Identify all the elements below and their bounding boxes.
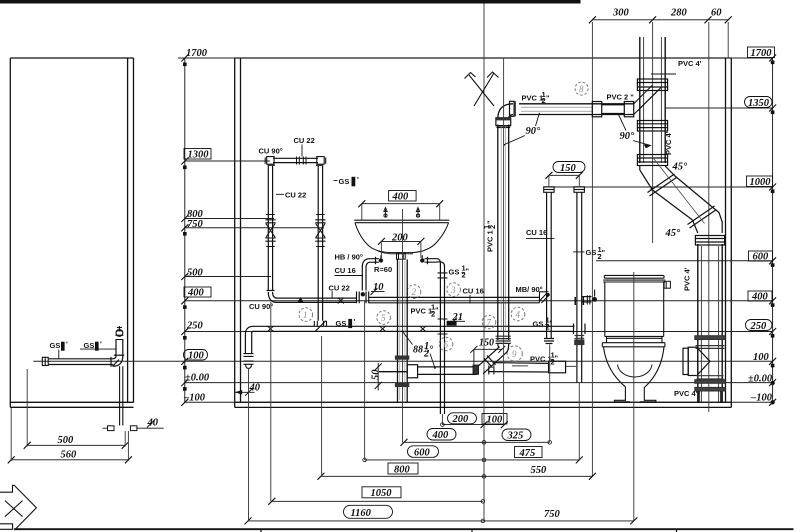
waste drop coupling below tee xyxy=(395,383,409,387)
CU16 riser right cap xyxy=(574,187,584,193)
level line 800 xyxy=(185,218,274,220)
svg-text:2: 2 xyxy=(412,287,417,297)
svg-text:±0.00: ±0.00 xyxy=(185,373,210,384)
washbasin drain box xyxy=(397,253,406,259)
150 dim between risers xyxy=(553,162,585,173)
washbasin dim 400 xyxy=(389,191,417,202)
elbow socket vertical band xyxy=(510,101,516,116)
level line 400 xyxy=(185,300,773,302)
supply pipe 400 level left segment xyxy=(277,298,357,302)
svg-text:CU 90°: CU 90° xyxy=(259,147,283,156)
toilet cistern body xyxy=(605,282,664,343)
svg-text:300: 300 xyxy=(612,8,630,19)
svg-text:±0.00: ±0.00 xyxy=(748,374,773,385)
svg-text:PVC 4': PVC 4' xyxy=(664,131,673,155)
svg-text:GS: GS xyxy=(336,319,347,328)
left wall pipe elbow xyxy=(111,355,124,367)
title block divider stubs xyxy=(261,529,677,532)
svg-text:R=60: R=60 xyxy=(374,265,392,274)
level line 1350 right xyxy=(666,107,773,109)
callout circle 1 xyxy=(299,308,313,322)
CU16 riser left cap xyxy=(544,187,554,193)
bottom extension verticals xyxy=(248,369,250,521)
svg-text:200: 200 xyxy=(452,414,470,425)
basin waste drop pipe xyxy=(398,259,408,402)
svg-text:600: 600 xyxy=(753,252,770,263)
svg-text:': ' xyxy=(100,340,102,349)
wye into stack xyxy=(634,86,661,115)
toilet bowl profile xyxy=(604,347,665,402)
svg-text:": " xyxy=(435,306,439,315)
right supply pipe to GS drop xyxy=(425,257,445,266)
svg-text:GS: GS xyxy=(586,248,597,257)
left wall horizontal pipe xyxy=(48,359,113,365)
svg-text:150: 150 xyxy=(479,338,494,349)
svg-text:400: 400 xyxy=(187,288,205,299)
MB 90 elbow into CU16 riser xyxy=(540,292,550,303)
svg-text:1000: 1000 xyxy=(750,177,772,188)
left wall vertical pipe xyxy=(116,340,123,357)
long center extension line xyxy=(483,4,485,521)
svg-text:": " xyxy=(486,220,495,224)
tee where 250 pipe ends xyxy=(574,324,586,335)
stack coupling ring 2 xyxy=(637,121,667,132)
supply dots under basin xyxy=(379,258,383,262)
svg-text:750: 750 xyxy=(187,219,204,230)
svg-text:1: 1 xyxy=(303,310,308,320)
sheet top bar xyxy=(0,0,581,4)
level line 600 right xyxy=(596,260,773,262)
svg-text:MB/ 90°: MB/ 90° xyxy=(516,285,543,294)
svg-text:1700: 1700 xyxy=(751,48,773,59)
bottom dim row 1050 xyxy=(362,487,401,498)
left wall pipe top fitting xyxy=(115,326,123,340)
valve on right riser at 750 xyxy=(315,215,325,247)
GS distribution pipe 250 level xyxy=(253,326,575,331)
level line 250 xyxy=(185,331,773,333)
CU22 socket pair on top run xyxy=(297,157,307,165)
basin centerline extension xyxy=(402,209,404,443)
PVC 2 branch horizontal pipe xyxy=(519,104,634,115)
union on GS drop xyxy=(438,273,448,278)
svg-text:60: 60 xyxy=(711,8,722,19)
svg-text:600: 600 xyxy=(414,447,431,458)
svg-text:250: 250 xyxy=(186,321,204,332)
bottom dim row 200/100 xyxy=(448,413,477,424)
toilet seat xyxy=(602,343,665,347)
90 elbow at left of PVC1.5 branch xyxy=(498,104,513,119)
svg-text:PVC 1: PVC 1 xyxy=(486,230,495,252)
svg-text:HB / 90°: HB / 90° xyxy=(335,253,363,262)
lower stack coupling ring xyxy=(695,236,724,246)
level line -100 xyxy=(185,401,773,403)
svg-text:–100: –100 xyxy=(183,393,206,404)
svg-text:475: 475 xyxy=(519,448,536,459)
trap outlet stub xyxy=(489,366,494,375)
level line 750 xyxy=(185,227,324,229)
svg-text:1050: 1050 xyxy=(371,488,393,499)
callout circle 6 xyxy=(439,337,453,351)
left wall xyxy=(10,58,133,407)
svg-text:5: 5 xyxy=(381,313,386,323)
svg-text:7: 7 xyxy=(487,318,492,328)
R=60 bend pipe to left supply xyxy=(362,257,379,291)
level line 1000 right xyxy=(544,186,773,188)
svg-text:1300: 1300 xyxy=(188,150,210,161)
level line 100 xyxy=(33,360,772,362)
svg-text:500: 500 xyxy=(58,435,75,446)
tee CU22 right riser into 250 pipe xyxy=(314,321,326,332)
svg-text:9: 9 xyxy=(512,349,517,359)
svg-text:CU 16: CU 16 xyxy=(335,266,356,275)
top dim chain 300/280/60 xyxy=(592,19,728,21)
svg-text:800: 800 xyxy=(394,464,411,475)
svg-text:': ' xyxy=(354,317,356,326)
svg-text:GS: GS xyxy=(339,177,350,186)
CU22 elbow bottom-left to horizontal xyxy=(267,291,278,303)
X unions on 250 pipe xyxy=(267,326,426,332)
waste pipe to WC xyxy=(488,363,549,372)
svg-text:CU 90°: CU 90° xyxy=(249,302,273,311)
right level labels xyxy=(745,47,775,403)
trap 45 assembly at circle 9 xyxy=(477,347,506,374)
flow direction arrow bottom-left xyxy=(0,485,36,529)
svg-text:750: 750 xyxy=(544,509,561,520)
svg-text:PVC 1: PVC 1 xyxy=(411,307,433,316)
sheet bottom line xyxy=(14,528,794,530)
svg-text:560: 560 xyxy=(61,450,78,461)
svg-text:': ' xyxy=(66,340,68,349)
svg-text:400: 400 xyxy=(751,292,769,303)
supply pipe 400 level right segment xyxy=(369,297,540,302)
left level labels xyxy=(183,48,211,404)
X survey mark xyxy=(465,72,499,106)
union below left elbow xyxy=(244,354,254,369)
union at CU16 basin drop xyxy=(357,292,369,304)
svg-text:GS: GS xyxy=(449,268,460,277)
svg-text:–100: –100 xyxy=(750,392,773,403)
svg-text:500: 500 xyxy=(187,268,204,279)
WC connection socket xyxy=(549,361,566,373)
svg-text:45°: 45° xyxy=(672,162,689,173)
svg-text:8: 8 xyxy=(579,84,584,94)
PVC 1.5 vertical pipe xyxy=(498,125,509,341)
PVC4 stack upper column xyxy=(640,37,665,163)
washbasin rim xyxy=(354,220,449,223)
svg-text:CU 16: CU 16 xyxy=(526,228,547,237)
tee bars on GS drop at 250 pipe xyxy=(438,319,448,334)
cistern supply stub and dot xyxy=(575,290,597,306)
PVC4 stack lower column xyxy=(698,244,722,402)
svg-text:PVC 2 ": PVC 2 " xyxy=(607,93,635,102)
svg-text:": " xyxy=(555,354,559,363)
svg-text:': ' xyxy=(357,175,359,184)
CU22 riser left pipe xyxy=(268,166,272,291)
svg-text:6: 6 xyxy=(444,340,449,350)
svg-text:4: 4 xyxy=(516,310,521,320)
svg-text:1160: 1160 xyxy=(351,508,372,519)
left dimension column line xyxy=(184,58,186,402)
bottom dim row 600/475 xyxy=(408,446,439,458)
svg-text:CU 22: CU 22 xyxy=(285,191,306,200)
level line 1700 xyxy=(178,57,773,59)
toilet bowl arc xyxy=(618,365,653,377)
svg-text:PVC 4": PVC 4" xyxy=(674,389,700,398)
svg-text:GS: GS xyxy=(533,320,544,329)
toilet cistern lid xyxy=(603,275,665,282)
callout circle 5 xyxy=(377,311,391,325)
callout circle 9 xyxy=(507,346,522,361)
svg-text:50: 50 xyxy=(371,369,382,380)
level line 1300 xyxy=(185,160,270,162)
svg-text:45°: 45° xyxy=(665,228,682,239)
level line 0.00 xyxy=(185,382,773,384)
lower stack ring above tee xyxy=(695,336,725,349)
extension lines for 500/560 xyxy=(26,369,28,447)
bottom dim row 1160 and 750 xyxy=(344,505,393,518)
svg-text:CU 22: CU 22 xyxy=(294,136,315,145)
svg-text:100: 100 xyxy=(753,352,770,363)
svg-text:1700: 1700 xyxy=(186,48,208,59)
GS drop pipe xyxy=(440,265,444,414)
left wall pipe drop below elbow xyxy=(120,366,123,425)
svg-text:550: 550 xyxy=(531,465,548,476)
svg-text:CU 16: CU 16 xyxy=(463,287,484,296)
CU16 riser right (WC supply) xyxy=(577,192,582,382)
svg-text:': ' xyxy=(550,319,552,328)
CU22 elbow top-left xyxy=(265,157,275,166)
CU22 riser right pipe xyxy=(318,166,322,321)
waste tee to the right xyxy=(407,365,476,378)
tap symbols xyxy=(384,208,420,218)
waste drop coupling xyxy=(395,356,409,359)
level line 500 xyxy=(185,276,271,278)
svg-text:": " xyxy=(602,248,606,257)
extension lines from top chain xyxy=(591,22,593,476)
CU16 riser left end fitting xyxy=(544,339,554,344)
stack base to floor xyxy=(699,391,721,402)
svg-text:400: 400 xyxy=(392,192,410,203)
45 deg diagonal segment xyxy=(648,174,717,228)
svg-text:": " xyxy=(466,267,470,276)
trap bottom socket xyxy=(473,365,479,374)
right dimension column line xyxy=(772,58,774,402)
45 deg elbow upper xyxy=(640,166,675,189)
CU22 top run xyxy=(273,158,318,162)
45 deg elbow lower xyxy=(693,206,723,233)
svg-text:PVC 1: PVC 1 xyxy=(530,355,552,364)
svg-text:90°: 90° xyxy=(620,131,636,142)
callout circle 7 xyxy=(482,315,496,329)
main room wall xyxy=(235,58,732,407)
PVC1.5 pipe end socket bands xyxy=(496,336,511,343)
toilet centerline extension xyxy=(633,272,635,521)
svg-text:100: 100 xyxy=(487,415,504,426)
valve on left riser at 750 xyxy=(265,215,275,247)
couplings on right CU16 riser xyxy=(575,336,585,345)
flush valve xyxy=(664,281,670,288)
tee branch WC connection xyxy=(683,347,710,375)
svg-text:400: 400 xyxy=(432,430,450,441)
svg-text:325: 325 xyxy=(507,431,524,442)
svg-text:1350: 1350 xyxy=(748,98,770,109)
svg-text:": " xyxy=(546,94,550,103)
bottom dim row 400/325 xyxy=(427,429,456,441)
svg-text:90°: 90° xyxy=(526,126,542,137)
left dim ticks xyxy=(181,55,188,406)
svg-text:GS: GS xyxy=(50,341,61,350)
callout circle 4 xyxy=(511,307,525,321)
flow marker on 400 pipe xyxy=(298,297,304,302)
PVC2 coupling xyxy=(592,102,633,117)
tee lower socket and rings xyxy=(695,376,725,391)
svg-text:100: 100 xyxy=(188,351,205,362)
circle 8 xyxy=(575,82,588,95)
svg-text:88: 88 xyxy=(413,345,423,356)
svg-text:PVC 4': PVC 4' xyxy=(678,59,702,68)
left wall pipe valve xyxy=(42,357,48,365)
callout circle 2 xyxy=(407,285,421,299)
trap top elbow from PVC1.5 xyxy=(498,344,509,354)
elbow socket horizontal band xyxy=(496,118,511,128)
stack coupling ring 3 xyxy=(637,155,667,166)
stack coupling ring 1 xyxy=(637,79,667,94)
svg-text:PVC 1: PVC 1 xyxy=(522,94,544,103)
black stub right of GS drop xyxy=(447,321,457,326)
elbow left end of 250 pipe xyxy=(245,326,253,353)
svg-text:3: 3 xyxy=(450,285,456,295)
svg-text:150: 150 xyxy=(560,163,577,174)
svg-text:PVC 4': PVC 4' xyxy=(683,267,692,291)
callout circle 3 xyxy=(447,283,461,297)
CU22 elbow top-right xyxy=(316,157,326,166)
bottom dim row 800/550 xyxy=(388,463,418,474)
CU16 riser left (MB) xyxy=(547,192,552,338)
washbasin bowl xyxy=(355,223,449,253)
svg-text:280: 280 xyxy=(670,8,688,19)
svg-text:250: 250 xyxy=(750,321,768,332)
